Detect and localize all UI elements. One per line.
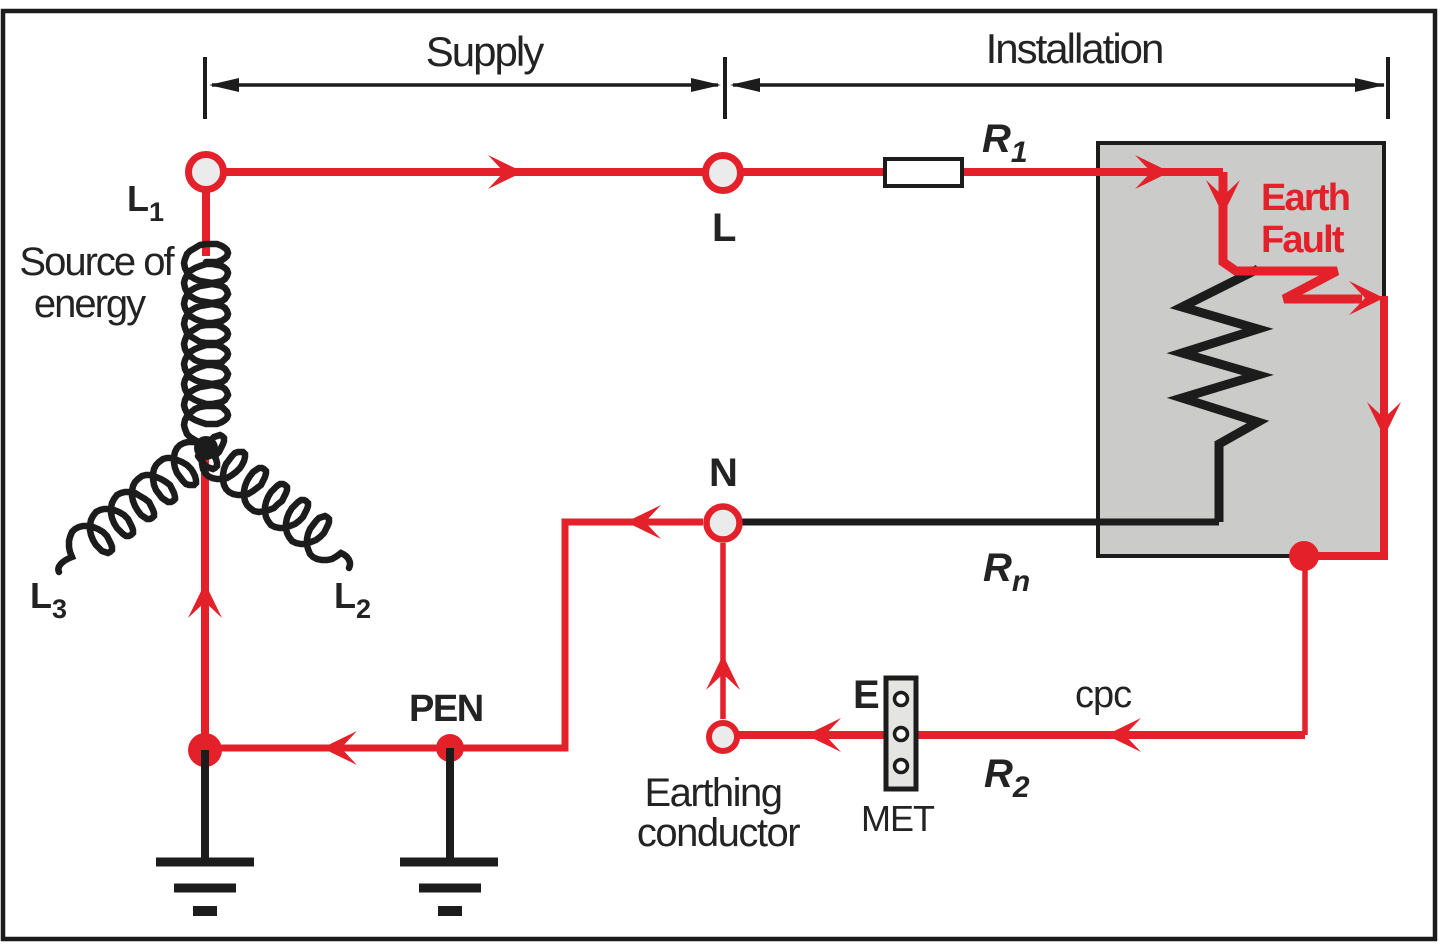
arrow down into fault bbox=[1206, 180, 1240, 215]
earth fault path vertical bbox=[1223, 172, 1362, 299]
terminal N bbox=[707, 507, 740, 540]
wire line conductor L1 to installation bbox=[206, 168, 1223, 176]
MET hole 3 bbox=[895, 760, 908, 773]
star point dot bbox=[194, 436, 218, 460]
wire cpc drop bbox=[1302, 556, 1308, 735]
svg-text:E: E bbox=[853, 673, 880, 717]
junction dot cpc bbox=[1289, 541, 1319, 571]
wire star point to earth junction bbox=[201, 448, 209, 750]
wire earthing conductor vertical bbox=[720, 543, 726, 719]
arrow cpc mid bbox=[1106, 718, 1141, 752]
installation enclosure box bbox=[1098, 143, 1384, 556]
arrow on supply line bbox=[488, 155, 523, 189]
arrow cpc near MET bbox=[806, 718, 841, 752]
svg-text:MET: MET bbox=[861, 798, 935, 839]
winding phase L2 bbox=[202, 435, 350, 568]
wire drop from L1 to winding bbox=[202, 168, 210, 256]
arrow up to star point bbox=[188, 583, 222, 618]
MET hole 1 bbox=[895, 693, 908, 706]
svg-text:energy: energy bbox=[34, 282, 146, 326]
wire neutral Rn (N terminal to load) bbox=[723, 519, 1219, 526]
arrow toward PEN corner bbox=[626, 505, 661, 539]
junction dot PEN bbox=[436, 734, 464, 762]
winding phase L3 bbox=[58, 442, 217, 572]
junction dot source earth bbox=[188, 733, 222, 767]
svg-text:L: L bbox=[712, 206, 736, 250]
ground source earth bbox=[156, 750, 254, 911]
wire casing down right side bbox=[1304, 296, 1384, 556]
arrow PEN toward source bbox=[322, 731, 357, 765]
arrow up earthing conductor bbox=[706, 655, 740, 690]
svg-text:Earthing: Earthing bbox=[645, 771, 782, 815]
svg-text:PEN: PEN bbox=[409, 688, 483, 730]
terminal L bbox=[706, 156, 741, 191]
arrow down casing bbox=[1367, 402, 1401, 437]
supply dimension line bbox=[212, 83, 718, 87]
svg-text:cpc: cpc bbox=[1075, 674, 1131, 716]
wire neutral return N to PEN bbox=[205, 522, 703, 748]
svg-text:Supply: Supply bbox=[426, 28, 544, 75]
terminal earthing conductor bbox=[709, 723, 737, 751]
dimension tick middle bbox=[723, 57, 727, 119]
fuse R1 bbox=[885, 159, 962, 186]
terminal L1 bbox=[189, 155, 224, 190]
svg-text:Installation: Installation bbox=[986, 25, 1163, 72]
svg-text:Source of: Source of bbox=[19, 240, 175, 284]
MET hole 2 bbox=[895, 728, 908, 741]
svg-text:conductor: conductor bbox=[637, 811, 800, 855]
dimension tick left bbox=[203, 57, 207, 119]
ground PEN earth bbox=[400, 748, 498, 911]
svg-text:Fault: Fault bbox=[1261, 219, 1345, 261]
svg-text:N: N bbox=[709, 451, 738, 495]
wire cpc horizontal bbox=[723, 731, 1305, 739]
svg-text:Earth: Earth bbox=[1261, 177, 1349, 219]
dimension tick right bbox=[1386, 57, 1390, 119]
MET terminal block bbox=[886, 678, 916, 789]
installation dimension line bbox=[733, 83, 1384, 87]
winding phase L1 bbox=[184, 244, 228, 444]
arrow fault to casing bbox=[1349, 281, 1384, 315]
arrow entering installation bbox=[1135, 155, 1170, 189]
load resistor (installation) bbox=[1182, 269, 1258, 522]
